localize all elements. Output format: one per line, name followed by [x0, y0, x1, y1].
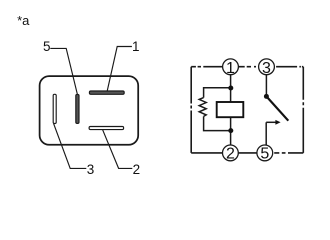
svg-text:2: 2 — [226, 146, 235, 163]
svg-text:1: 1 — [132, 39, 140, 54]
svg-text:5: 5 — [260, 146, 269, 163]
svg-text:2: 2 — [133, 162, 141, 177]
svg-text:3: 3 — [262, 60, 271, 77]
svg-text:3: 3 — [87, 162, 95, 177]
svg-text:5: 5 — [43, 39, 51, 54]
svg-text:1: 1 — [226, 60, 235, 77]
svg-text:*a: *a — [17, 13, 30, 28]
